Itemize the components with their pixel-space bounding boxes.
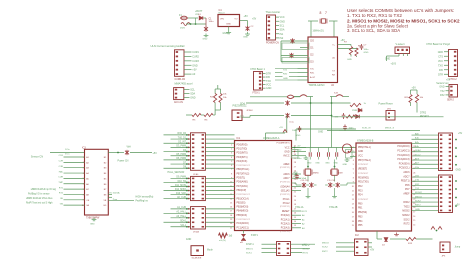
flag gnd left [292, 150, 299, 159]
label i2c gnd [296, 135, 301, 137]
capacitor C23 decouple [336, 152, 338, 156]
svg-text:26: 26 [413, 172, 415, 174]
label IC1 PB5(SCK) [237, 215, 248, 217]
label IC3 A4 [86, 172, 89, 175]
label IC2 name [355, 234, 359, 237]
label ubrd lines [26, 188, 57, 205]
label IC3 r B1 [104, 157, 107, 159]
label IC2 ADC6 [403, 171, 410, 174]
junction hdr 18 [186, 221, 188, 223]
label net MISO2 [415, 196, 423, 198]
svg-text:PB3(MOSI): PB3(MOSI) [237, 207, 249, 209]
svg-text:16: 16 [352, 212, 354, 214]
svg-text:GND: GND [266, 87, 272, 90]
svg-text:IC2: IC2 [355, 234, 359, 237]
wire hdr row 4 [164, 151, 235, 153]
label IC1 PB0(ICP) [237, 190, 247, 192]
label FTDI1 GND [266, 87, 272, 90]
wire sensor in [50, 152, 85, 154]
diode D2 [382, 238, 388, 247]
label IC2 top [357, 140, 374, 143]
svg-text:GND: GND [347, 59, 352, 61]
ground IC3 [90, 218, 96, 226]
svg-text:14: 14 [413, 225, 415, 227]
label IC1 RESET [282, 211, 290, 213]
pin number IC1 R19 [294, 225, 296, 227]
ground IC2 bottom [394, 233, 399, 236]
label IC3 r B2 [104, 162, 107, 164]
svg-text:13: 13 [294, 225, 296, 227]
wire hdr row 6 [164, 159, 235, 161]
wire JP3 pins [399, 54, 408, 57]
wire long net [339, 130, 420, 132]
pin number IC2 R8 [413, 181, 415, 183]
label IC2 RST2 [404, 224, 411, 226]
svg-text:C2R: C2R [59, 161, 64, 163]
pin number IC1 L5 [231, 165, 232, 167]
svg-text:TMP36-GZ/SO: TMP36-GZ/SO [309, 84, 325, 87]
svg-text:GND: GND [364, 52, 369, 54]
svg-text:11: 11 [352, 190, 354, 192]
wire U2 pinL1 [298, 72, 309, 74]
pin number IC2 L11 [352, 195, 354, 197]
label IC1 PC2(A2) [281, 223, 290, 226]
crystal Q1 [304, 169, 319, 175]
connector X1 [267, 15, 276, 40]
wire isp2 r [368, 243, 372, 247]
pin number IC1 L18 [230, 219, 232, 221]
label IC3 r B4 [104, 173, 107, 175]
svg-text:GND: GND [284, 152, 289, 154]
wire JP3 left [387, 56, 400, 61]
label FTDI1 DTR [266, 72, 271, 75]
label net D2_INT [178, 142, 186, 144]
wire pullup bottom [411, 103, 418, 113]
wire xtal to IC1 [292, 183, 299, 185]
label IC2 PB0 [358, 203, 363, 205]
label IC3 A6 [86, 183, 89, 186]
label net AD7 [415, 162, 420, 165]
label IC2 PB6(XTAL1) [358, 146, 371, 149]
label IC2 GND [358, 151, 363, 153]
wire fuse to diode [186, 18, 206, 24]
svg-text:PD7: PD7 [405, 189, 410, 191]
svg-text:RST2: RST2 [322, 251, 328, 253]
label net row2 [59, 166, 64, 168]
label IC2 TXD2 [404, 206, 411, 208]
wire U2 right [338, 45, 357, 50]
pin number hdr 15 [188, 208, 189, 209]
label net row4 [58, 177, 63, 179]
resonator X2 [320, 19, 327, 24]
svg-text:250V: 250V [180, 28, 186, 30]
label U2 TXL [310, 69, 316, 80]
svg-text:19: 19 [230, 219, 232, 221]
svg-text:MISO1_S: MISO1_S [385, 127, 395, 129]
svg-text:PCINT6/XT: PCINT6/XT [358, 173, 369, 175]
label IC2 PD0(RXD) [358, 177, 369, 179]
label IC2 PC4(SDA) [399, 162, 410, 165]
label +BATT [195, 10, 203, 16]
label IC2 PB4 [358, 221, 363, 223]
pin number IC2 R3 [413, 159, 415, 161]
svg-text:IC1: IC1 [237, 137, 241, 140]
label net A3b [415, 145, 420, 148]
svg-text:TMP: TMP [58, 182, 63, 184]
label H5 right [456, 169, 461, 206]
label X1 IN2 [280, 37, 284, 40]
label CN2 GND [190, 97, 196, 100]
pin number IC1 L16 [230, 211, 232, 213]
capacitor C20 decouple [309, 152, 311, 156]
label IC2 PC1(ADC1) [397, 150, 409, 153]
label bottom net [251, 234, 259, 237]
junction hdr 3 [186, 146, 188, 148]
pin number IC3 L0 [83, 157, 84, 159]
label serial2 [436, 82, 448, 85]
svg-text:15: 15 [294, 217, 296, 219]
label IC2 PD7 [405, 189, 410, 191]
svg-text:PD5(T1): PD5(T1) [237, 178, 246, 180]
svg-text:D13_SCK: D13_SCK [176, 193, 187, 195]
label IC3 OE [86, 200, 90, 202]
label net row6 [59, 187, 64, 189]
wire IC3 pin2 [64, 167, 85, 169]
svg-text:+5V: +5V [412, 87, 417, 90]
pin number IC2 L9 [352, 186, 354, 188]
svg-text:2: 2 [231, 148, 232, 150]
svg-text:+5V: +5V [279, 127, 283, 129]
svg-text:C3R: C3R [59, 166, 64, 168]
label SER2 RX2 [440, 95, 445, 97]
svg-text:D9_PWM: D9_PWM [176, 177, 186, 179]
header 2x6 [191, 176, 206, 200]
svg-text:Power/Power: Power/Power [379, 102, 393, 105]
svg-text:8: 8 [83, 194, 84, 196]
svg-text:3: 3 [83, 168, 84, 170]
capacitor C22 decouple [327, 152, 329, 156]
svg-text:17: 17 [352, 216, 354, 218]
label net D5_PWM [176, 154, 186, 156]
pin number IC1 L9 [230, 182, 232, 184]
label resonator [313, 30, 324, 32]
wire xtal to IC2 [343, 183, 356, 185]
label IC2 RXD2 [403, 202, 410, 204]
label IC2 PC3(ADC3) [397, 158, 409, 161]
svg-text:FTDI-1: FTDI-1 [253, 92, 261, 94]
svg-text:PB4(MISO): PB4(MISO) [237, 211, 249, 213]
wire divider top [215, 85, 220, 94]
label IC1 PD6(AIN0) [237, 181, 248, 184]
label IC2 spacer 4 [358, 164, 369, 166]
svg-text:22: 22 [294, 187, 296, 189]
pin number IC3 L3 [83, 173, 84, 175]
resistor R6 [204, 113, 213, 121]
label net SCL2 [415, 154, 421, 156]
label c8 [290, 121, 295, 123]
svg-text:21: 21 [230, 227, 232, 229]
label IC3 VA [86, 204, 89, 207]
wire IC3 pin9 [64, 204, 85, 206]
pin number IC1 L3 [231, 157, 232, 159]
svg-text:3: 3 [231, 153, 232, 155]
svg-text:JP-A1: JP-A1 [193, 173, 199, 176]
svg-text:AREF: AREF [403, 193, 410, 196]
ic IC3 box [85, 149, 109, 215]
wire C21 [318, 148, 320, 160]
diode D1 [198, 14, 203, 20]
label JP6 [192, 250, 214, 260]
label IC1 PB4(MISO) [237, 211, 249, 213]
wire IC2-H4 6 [412, 159, 439, 161]
label accel header [175, 83, 193, 86]
label IC3 A2 [86, 161, 89, 164]
label IC1 PB7(XTAL2) [237, 172, 250, 175]
pin number hdr 18 [188, 222, 189, 223]
junction hdr 10 [186, 182, 188, 184]
label power power [379, 102, 393, 105]
label FTDI2 VCC [438, 60, 443, 63]
wire IC2-H4 7 [412, 163, 439, 165]
junction hdr 0 [186, 134, 188, 136]
wire X1 pin2 [276, 20, 280, 22]
label net A0b [415, 132, 420, 135]
label IC3 r B8 [104, 194, 107, 196]
pin number IC2 R12 [413, 198, 415, 200]
wire branch down [286, 116, 288, 134]
label U2 CIO [310, 41, 314, 43]
junction i2c [310, 102, 333, 104]
svg-text:GND: GND [223, 33, 228, 35]
svg-text:AREF: AREF [283, 163, 290, 166]
svg-text:ATMEGA328-B: ATMEGA328-B [357, 140, 374, 143]
wire X1 pin4 [276, 29, 280, 31]
label heat [108, 192, 120, 201]
wire U2 loop2 box [282, 58, 309, 64]
wire hdr row 1 [171, 138, 235, 140]
wire loadcap1 [299, 184, 317, 186]
svg-text:PD5(T1): PD5(T1) [401, 181, 410, 183]
svg-text:8: 8 [231, 173, 232, 175]
label U2 below [309, 84, 335, 87]
header ISP1 [277, 242, 291, 256]
label IC1 AREF [283, 163, 290, 166]
label IC3 A5 [86, 177, 89, 180]
pin number IC1 L19 [230, 223, 232, 225]
label IC2 AREF [403, 193, 410, 196]
svg-text:MISO2: MISO2 [415, 196, 423, 198]
connector FTDI2 [449, 50, 458, 77]
svg-text:VCC: VCC [266, 83, 271, 86]
svg-text:100u: 100u [209, 21, 215, 23]
pin number IC2 R4 [413, 164, 415, 166]
svg-text:GND: GND [385, 58, 390, 60]
svg-text:MISO2: MISO2 [322, 242, 330, 244]
label CN1 A0 [192, 73, 196, 76]
wire FTDI1 pin5 [263, 87, 266, 89]
svg-text:SCK1: SCK1 [246, 253, 252, 255]
pin number IC1 L4 [231, 161, 232, 163]
pin number IC1 L13 [230, 198, 232, 200]
capacitor C21 decouple [318, 152, 320, 156]
capacitor CL4 [336, 182, 340, 187]
pin number IC1 R7 [294, 175, 296, 177]
svg-text:Power CN: Power CN [118, 159, 129, 162]
wire IC2-H5 7 [412, 205, 439, 207]
wire IC2-H5 0 [412, 176, 439, 178]
capacitor CL3 [328, 182, 332, 187]
label IC1 PC3(A3) [281, 227, 290, 230]
pin number IC2 L7 [353, 177, 354, 179]
label net MOSI2 [415, 192, 423, 194]
svg-text:PD6(AIN0): PD6(AIN0) [237, 181, 248, 184]
junction H5 181 [455, 180, 457, 182]
svg-text:+5V: +5V [341, 40, 346, 42]
wire IC2-H5 3 [412, 189, 439, 191]
wire IC2-H4 5 [412, 155, 439, 157]
label IC2 MOSI2 [402, 211, 410, 213]
svg-text:SCK1_M: SCK1_M [362, 127, 371, 129]
svg-text:+5V: +5V [252, 19, 257, 21]
label IC2 PC0(ADC0) [397, 145, 409, 148]
label gnd mid [318, 131, 323, 133]
svg-text:PD4: PD4 [358, 195, 363, 197]
wire reset net [331, 115, 444, 117]
pin number IC2 R1 [413, 151, 415, 153]
pin number IC2 R2 [413, 155, 415, 157]
svg-text:RX0_D0: RX0_D0 [177, 133, 186, 135]
svg-text:ADC7: ADC7 [403, 175, 410, 178]
label FTDI2 CTS [438, 55, 443, 58]
wire R7R8 gnd [351, 55, 357, 58]
label CN1 GND [192, 64, 198, 67]
wire FTDI2 pin2 [444, 55, 449, 57]
wire IC2-H5 4 [412, 193, 439, 195]
resistor R12 [415, 95, 424, 103]
pin number hdr 16 [188, 213, 189, 214]
label net AD6 [415, 157, 420, 160]
svg-text:(PCINT12): (PCINT12) [280, 181, 290, 183]
label IC2 PB1 [358, 208, 363, 210]
wire IC2-H4 8 [412, 167, 439, 169]
buzzer SP1 [232, 110, 253, 121]
svg-text:GND: GND [203, 39, 208, 41]
svg-text:6: 6 [83, 184, 84, 186]
svg-text:FTDI Basic for Prog2: FTDI Basic for Prog2 [427, 43, 451, 46]
junction on VIN [190, 23, 197, 25]
label net D11_MOSI [175, 185, 186, 187]
svg-text:PB1(OC1A): PB1(OC1A) [237, 197, 249, 200]
pin number IC1 R11 [294, 192, 296, 194]
label IC2 PD6 [405, 185, 410, 187]
label IC1 faint 231.9 [280, 231, 290, 233]
header H4 [439, 133, 453, 171]
wire IC2-H4 2 [412, 142, 439, 144]
svg-text:A3_HALL: A3_HALL [176, 215, 186, 218]
pin number IC2 R14 [413, 207, 415, 209]
wire hdr row 9 [171, 177, 235, 179]
wire xtal top net [292, 147, 357, 149]
junction hdr 2 [186, 142, 188, 144]
junction hdr 8 [186, 167, 188, 169]
svg-text:RXI: RXI [439, 69, 443, 72]
svg-text:D12_MISO: D12_MISO [175, 189, 186, 191]
ground IC1 [304, 156, 309, 159]
svg-text:15: 15 [413, 220, 415, 222]
pin number IC1 R4 [294, 162, 296, 164]
label IC2 PD2 [358, 186, 363, 188]
svg-text:RST2: RST2 [415, 205, 421, 207]
wire sda [246, 102, 351, 104]
label IC3 name [86, 218, 100, 220]
svg-text:aG (N): aG (N) [219, 240, 226, 242]
label X1 SCL [280, 24, 285, 27]
junction hdr 6 [186, 159, 188, 161]
svg-text:PC4(SDA): PC4(SDA) [399, 162, 410, 165]
label IC3 A1 [86, 156, 89, 159]
wire IC2-H5 5 [412, 197, 439, 199]
jumper JP6 [191, 246, 204, 256]
label net A1b [415, 137, 420, 140]
svg-text:PB7(XTAL2): PB7(XTAL2) [358, 159, 371, 162]
svg-text:PC1(ADC1): PC1(ADC1) [237, 226, 249, 229]
label IC2 PB3 [358, 216, 363, 218]
svg-text:RXD2: RXD2 [403, 202, 410, 204]
svg-text:PC1(A1): PC1(A1) [281, 218, 290, 221]
label CN1 +5V [192, 69, 197, 72]
svg-text:6: 6 [353, 169, 354, 171]
wire CN2 pin1 [184, 89, 190, 91]
svg-text:+5V 100mA: +5V 100mA [108, 192, 120, 195]
pin number IC2 R10 [413, 190, 415, 192]
label R7R8 [344, 42, 362, 48]
label IC2 PD1(TXD) [358, 182, 369, 184]
wire hdr row 10 [164, 181, 235, 183]
label IC2 spacer 6 [358, 173, 369, 175]
pin number IC1 L0 [231, 144, 232, 146]
label isp2 nets [322, 242, 330, 252]
pin number hdr 10 [188, 182, 189, 183]
svg-text:9: 9 [353, 182, 354, 184]
wire IC1 r 223.6 [292, 223, 302, 225]
label A4A5 [302, 177, 308, 213]
svg-text:GD: GD [103, 205, 107, 207]
wire IC1 r 211 [292, 210, 302, 212]
wire hdr row 18 [164, 221, 235, 223]
wire IC2-H4 0 [412, 134, 439, 136]
svg-text:CUR3: CUR3 [192, 60, 199, 63]
svg-text:PD6: PD6 [405, 185, 410, 187]
label CN1 CUR1 [192, 51, 199, 54]
svg-text:4: 4 [231, 157, 232, 159]
wire pullup top [411, 90, 418, 94]
label net RX0_D0 [177, 133, 186, 135]
label IC3 [82, 147, 86, 150]
svg-text:8: 8 [353, 177, 354, 179]
label net row1 [59, 161, 64, 163]
label net A1_CUR [177, 206, 186, 209]
jumper arcs upper [294, 95, 313, 97]
label IC1 spacer 18 [237, 219, 251, 221]
wire IC3 pin1 [64, 161, 85, 163]
svg-text:VCC: VCC [438, 60, 443, 63]
label CN1 CUR2 [192, 55, 199, 58]
header ISP2 [355, 239, 369, 256]
label U2 right inner [332, 45, 336, 60]
label IC1 GND [284, 152, 289, 154]
wire mcu2 bottom stub [376, 231, 378, 239]
svg-text:C15 C16: C15 C16 [327, 180, 336, 182]
